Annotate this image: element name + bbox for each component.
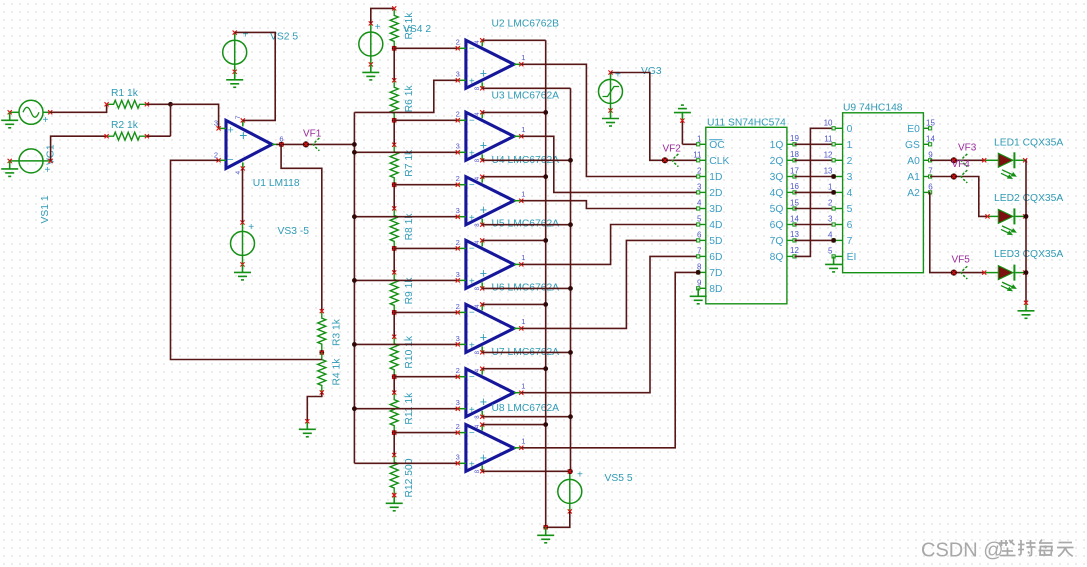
- ground: [1, 112, 18, 128]
- node junction: [319, 350, 324, 355]
- wire: [235, 32, 276, 120]
- svg-text:+: +: [480, 139, 487, 153]
- source VS5: [558, 469, 633, 514]
- svg-text:18: 18: [790, 150, 799, 159]
- svg-text:2: 2: [456, 110, 460, 119]
- node junction: [392, 430, 397, 435]
- wire: [354, 462, 457, 464]
- wire: [354, 279, 457, 281]
- svg-text:7: 7: [697, 246, 702, 255]
- svg-text:+: +: [469, 149, 475, 160]
- resistor R11: [390, 391, 415, 435]
- svg-text:−: −: [469, 372, 475, 383]
- wire: [521, 256, 698, 392]
- svg-text:7: 7: [928, 167, 933, 176]
- svg-text:2: 2: [456, 38, 460, 47]
- ground: [674, 105, 691, 144]
- svg-text:OC: OC: [709, 140, 725, 151]
- resistor R10: [390, 335, 415, 379]
- ground: [1, 161, 18, 177]
- wire: [546, 511, 570, 527]
- svg-text:4: 4: [697, 199, 702, 208]
- svg-text:EI: EI: [847, 252, 857, 263]
- svg-text:12: 12: [790, 246, 799, 255]
- source VS2: [223, 29, 299, 74]
- svg-text:3: 3: [456, 398, 460, 407]
- node junction: [392, 182, 397, 187]
- wire: [521, 272, 698, 447]
- node junction: [543, 174, 548, 179]
- svg-text:6: 6: [847, 220, 853, 231]
- node junction: [392, 310, 397, 315]
- node junction: [543, 110, 548, 115]
- svg-text:CLK: CLK: [709, 156, 729, 167]
- wire: [307, 392, 322, 421]
- probe VF5: [951, 255, 971, 279]
- svg-text:VS3 -5: VS3 -5: [278, 226, 310, 237]
- wire: [611, 73, 699, 161]
- resistor R5: [390, 6, 415, 50]
- svg-text:VF5: VF5: [952, 255, 971, 266]
- svg-text:+: +: [480, 395, 487, 409]
- svg-text:15: 15: [790, 198, 799, 207]
- svg-text:+: +: [480, 331, 487, 345]
- svg-text:3: 3: [456, 70, 460, 79]
- svg-text:+: +: [480, 267, 487, 281]
- ground: [690, 288, 707, 304]
- svg-text:GS: GS: [905, 140, 920, 151]
- svg-text:3: 3: [456, 270, 460, 279]
- wire: [795, 224, 834, 226]
- svg-text:A1: A1: [907, 172, 920, 183]
- svg-text:2: 2: [697, 167, 702, 176]
- node junction: [352, 142, 357, 147]
- svg-text:6: 6: [697, 230, 702, 239]
- svg-text:−: −: [469, 44, 475, 55]
- wire: [394, 119, 458, 121]
- svg-text:CSDN @: CSDN @: [921, 540, 1004, 562]
- wire: [1025, 272, 1026, 274]
- wire: [394, 311, 458, 313]
- wire: [281, 144, 322, 311]
- wire: [482, 470, 570, 472]
- ground: [537, 527, 554, 543]
- wire: [393, 120, 395, 144]
- wire: [482, 176, 546, 178]
- wire: [394, 184, 458, 186]
- wire: [354, 408, 457, 410]
- svg-text:5Q: 5Q: [770, 204, 784, 215]
- node junction: [392, 246, 397, 251]
- node junction: [568, 286, 573, 291]
- svg-text:2: 2: [828, 199, 833, 208]
- svg-text:1: 1: [521, 437, 525, 446]
- svg-text:4: 4: [235, 171, 242, 175]
- source VG1: [8, 100, 57, 165]
- resistor R3: [318, 309, 343, 351]
- svg-text:4Q: 4Q: [770, 188, 784, 199]
- ground: [386, 493, 403, 511]
- wire: [393, 377, 395, 393]
- svg-text:7Q: 7Q: [770, 236, 784, 247]
- svg-text:−: −: [469, 428, 475, 439]
- svg-text:1: 1: [521, 125, 525, 134]
- svg-text:1: 1: [521, 317, 525, 326]
- svg-text:VF2: VF2: [663, 144, 682, 155]
- node junction: [543, 422, 548, 427]
- probe VF4: [951, 159, 971, 183]
- svg-text:−: −: [469, 244, 475, 255]
- ground: [1018, 301, 1035, 319]
- op-amp U7: [456, 347, 560, 419]
- svg-text:6: 6: [928, 182, 933, 191]
- node junction: [392, 46, 397, 51]
- wire: [795, 143, 834, 145]
- svg-text:13: 13: [790, 230, 799, 239]
- node junction: [352, 278, 357, 283]
- svg-text:1: 1: [521, 253, 525, 262]
- svg-text:3: 3: [214, 118, 218, 127]
- svg-text:−: −: [227, 154, 233, 166]
- svg-text:15: 15: [926, 118, 935, 127]
- wire: [354, 151, 457, 153]
- svg-text:5: 5: [847, 204, 853, 215]
- IC U11 SN74HC574: [693, 118, 799, 304]
- svg-text:2: 2: [456, 238, 460, 247]
- wire: [171, 104, 219, 128]
- LED LED3: [982, 249, 1063, 291]
- svg-text:VF3: VF3: [958, 142, 977, 153]
- svg-text:1D: 1D: [709, 172, 722, 183]
- ground: [602, 111, 619, 127]
- svg-text:10: 10: [824, 118, 833, 127]
- wire: [354, 80, 457, 112]
- svg-text:+: +: [480, 451, 487, 465]
- svg-text:R3 1k: R3 1k: [331, 318, 342, 346]
- ground: [362, 64, 379, 80]
- resistor R8: [390, 206, 415, 250]
- svg-text:4: 4: [828, 230, 833, 239]
- wire: [371, 8, 394, 23]
- svg-text:+: +: [45, 165, 51, 176]
- op-amp U1: [214, 115, 300, 189]
- svg-text:3: 3: [828, 215, 833, 224]
- resistor R9: [390, 270, 415, 314]
- resistor R12: [390, 453, 415, 498]
- wire: [170, 104, 172, 136]
- node junction: [543, 525, 548, 530]
- node junction: [168, 102, 173, 107]
- svg-text:7D: 7D: [709, 268, 722, 279]
- wire: [521, 64, 698, 176]
- wire: [482, 368, 546, 370]
- wire: [795, 128, 834, 256]
- node junction: [352, 214, 357, 219]
- svg-text:6D: 6D: [709, 252, 722, 263]
- wire: [171, 160, 322, 359]
- svg-text:6Q: 6Q: [770, 220, 784, 231]
- svg-text:5D: 5D: [709, 236, 722, 247]
- ground: [226, 72, 243, 88]
- svg-text:12: 12: [824, 150, 833, 159]
- node junction: [568, 414, 573, 419]
- svg-text:U3 LMC6762A: U3 LMC6762A: [492, 91, 560, 102]
- svg-text:8Q: 8Q: [770, 252, 784, 263]
- svg-text:14: 14: [926, 134, 935, 143]
- svg-text:3: 3: [456, 206, 460, 215]
- svg-text:1: 1: [697, 134, 702, 143]
- svg-text:+: +: [248, 222, 254, 233]
- svg-text:VS1 1: VS1 1: [40, 195, 51, 223]
- wire: [393, 185, 395, 209]
- IC U9 74HC148: [824, 103, 936, 273]
- svg-text:VS5 5: VS5 5: [605, 473, 633, 484]
- svg-text:8D: 8D: [709, 284, 722, 295]
- svg-text:2: 2: [456, 422, 460, 431]
- svg-text:1: 1: [521, 190, 525, 199]
- wire: [482, 239, 546, 241]
- wire: [521, 136, 698, 192]
- source VS1: [8, 149, 53, 224]
- wire: [394, 376, 458, 378]
- svg-text:+: +: [469, 277, 475, 288]
- svg-text:3D: 3D: [709, 204, 722, 215]
- node junction: [1024, 214, 1029, 219]
- svg-text:2: 2: [214, 150, 218, 159]
- resistor R2: [105, 120, 150, 140]
- svg-text:3: 3: [847, 172, 853, 183]
- node junction: [352, 342, 357, 347]
- wire: [393, 48, 395, 80]
- svg-text:R5 1k: R5 1k: [404, 12, 415, 40]
- svg-text:9: 9: [697, 278, 702, 287]
- svg-text:0: 0: [847, 124, 853, 135]
- wire: [147, 135, 171, 137]
- svg-text:R10 1k: R10 1k: [404, 335, 415, 368]
- wire: [394, 47, 458, 49]
- svg-text:13: 13: [824, 167, 833, 176]
- wire: [930, 177, 987, 217]
- node junction: [568, 350, 573, 355]
- node junction: [392, 374, 397, 379]
- node junction: [543, 302, 548, 307]
- wire: [795, 208, 834, 210]
- wire: [570, 88, 572, 471]
- svg-text:VF1: VF1: [303, 129, 322, 140]
- wire: [1025, 160, 1026, 302]
- svg-text:U8 LMC6762A: U8 LMC6762A: [492, 403, 560, 414]
- watermark: [921, 540, 1074, 562]
- node junction: [392, 118, 397, 123]
- svg-text:R2 1k: R2 1k: [111, 120, 139, 131]
- resistor R7: [390, 143, 415, 187]
- svg-text:+: +: [227, 125, 233, 137]
- svg-text:U2 LMC6762B: U2 LMC6762B: [492, 19, 560, 30]
- svg-text:+: +: [239, 127, 247, 143]
- op-amp U8: [456, 403, 560, 474]
- wire: [482, 159, 570, 161]
- svg-text:R12 500: R12 500: [404, 458, 415, 497]
- svg-text:2: 2: [456, 302, 460, 311]
- node junction: [696, 270, 701, 275]
- svg-text:U11 SN74HC574: U11 SN74HC574: [707, 118, 786, 129]
- svg-text:9: 9: [928, 150, 933, 159]
- svg-text:+: +: [43, 115, 49, 126]
- svg-text:+: +: [615, 70, 621, 81]
- wire: [930, 192, 984, 272]
- svg-text:1Q: 1Q: [770, 140, 784, 151]
- probe VF3: [951, 142, 977, 166]
- svg-text:7: 7: [847, 236, 853, 247]
- svg-text:+: +: [469, 77, 475, 88]
- wire: [795, 176, 834, 178]
- svg-text:4: 4: [847, 188, 853, 199]
- node junction: [1024, 270, 1029, 275]
- node junction: [352, 150, 357, 155]
- wire: [682, 143, 698, 145]
- ground: [234, 264, 251, 280]
- svg-text:E0: E0: [907, 124, 920, 135]
- wire: [482, 224, 570, 226]
- wire: [482, 111, 546, 113]
- ground: [825, 256, 842, 272]
- node junction: [568, 158, 573, 163]
- LED LED2: [985, 193, 1063, 235]
- op-amp U4: [456, 155, 560, 227]
- svg-text:19: 19: [790, 134, 799, 143]
- probe VF2: [662, 144, 681, 167]
- resistor R4: [318, 353, 343, 395]
- node junction: [543, 238, 548, 243]
- wire: [353, 112, 355, 463]
- svg-text:2: 2: [847, 156, 853, 167]
- svg-text:+: +: [243, 29, 249, 40]
- svg-text:+: +: [480, 67, 487, 81]
- svg-text:VF4: VF4: [952, 159, 971, 170]
- op-amp U2: [456, 19, 560, 91]
- source VS3: [231, 220, 310, 266]
- op-amp U5: [456, 219, 560, 291]
- op-amp U3: [456, 91, 560, 163]
- svg-text:−: −: [469, 116, 475, 127]
- wire: [50, 104, 106, 112]
- node junction: [831, 238, 836, 243]
- svg-text:−: −: [469, 180, 475, 191]
- node junction: [543, 366, 548, 371]
- svg-text:17: 17: [790, 166, 799, 175]
- wire: [242, 168, 244, 222]
- resistor R1: [105, 88, 150, 108]
- wire: [51, 136, 107, 161]
- wire: [795, 191, 834, 193]
- svg-text:11: 11: [693, 150, 702, 159]
- svg-text:+: +: [469, 460, 475, 471]
- wire: [545, 40, 547, 527]
- svg-text:2Q: 2Q: [770, 156, 784, 167]
- svg-text:+: +: [469, 341, 475, 352]
- wire: [482, 287, 570, 289]
- svg-text:1: 1: [521, 382, 525, 391]
- svg-text:11: 11: [824, 134, 833, 143]
- wire: [521, 201, 698, 209]
- ground: [299, 419, 316, 437]
- node junction: [568, 222, 573, 227]
- svg-text:7: 7: [235, 115, 242, 119]
- wire: [393, 248, 395, 272]
- wire: [276, 143, 354, 145]
- svg-text:1: 1: [828, 182, 833, 191]
- wire: [482, 351, 570, 353]
- svg-text:1: 1: [521, 53, 525, 62]
- svg-text:R1 1k: R1 1k: [111, 88, 139, 99]
- wire: [795, 239, 834, 241]
- wire: [1025, 215, 1026, 217]
- svg-text:1: 1: [847, 140, 853, 151]
- svg-text:+: +: [577, 469, 583, 480]
- node junction: [279, 142, 284, 147]
- svg-text:3: 3: [456, 142, 460, 151]
- wire: [930, 159, 984, 161]
- svg-text:16: 16: [790, 182, 799, 191]
- svg-text:3: 3: [456, 453, 460, 462]
- node junction: [831, 190, 836, 195]
- svg-text:R6 1k: R6 1k: [404, 85, 415, 113]
- svg-text:5: 5: [697, 215, 702, 224]
- wire: [354, 216, 457, 218]
- node junction: [831, 174, 836, 179]
- wire: [393, 312, 395, 336]
- svg-text:5: 5: [828, 246, 833, 255]
- svg-text:VS2 5: VS2 5: [270, 32, 298, 43]
- wire: [521, 240, 698, 328]
- wire: [147, 103, 171, 105]
- svg-text:VG3: VG3: [641, 66, 662, 77]
- svg-text:3: 3: [456, 334, 460, 343]
- svg-text:14: 14: [790, 214, 799, 223]
- resistor R6: [390, 78, 415, 122]
- svg-text:2: 2: [456, 366, 460, 375]
- op-amp U6: [456, 283, 560, 355]
- wire: [521, 225, 698, 265]
- svg-text:+: +: [375, 22, 381, 33]
- wire: [795, 159, 834, 161]
- svg-text:R4 1k: R4 1k: [331, 358, 342, 386]
- wire: [482, 424, 546, 426]
- svg-text:+: +: [480, 203, 487, 217]
- wire: [354, 343, 457, 345]
- svg-text:A0: A0: [907, 156, 920, 167]
- svg-text:U9 74HC148: U9 74HC148: [843, 103, 903, 114]
- svg-text:−: −: [469, 308, 475, 319]
- svg-text:LED3 CQX35A: LED3 CQX35A: [994, 249, 1063, 260]
- wire: [482, 87, 570, 89]
- source VG3: [599, 66, 662, 113]
- wire: [482, 39, 546, 41]
- svg-text:3Q: 3Q: [770, 172, 784, 183]
- node junction: [352, 406, 357, 411]
- wire: [394, 247, 458, 249]
- svg-text:LED2 CQX35A: LED2 CQX35A: [994, 193, 1063, 204]
- source VS4: [359, 21, 432, 66]
- wire: [393, 433, 395, 455]
- svg-text:2: 2: [456, 174, 460, 183]
- svg-text:2D: 2D: [709, 188, 722, 199]
- svg-text:A2: A2: [907, 188, 920, 199]
- svg-text:3: 3: [697, 182, 702, 191]
- wire: [482, 303, 546, 305]
- svg-text:R7 1k: R7 1k: [404, 149, 415, 177]
- wire: [482, 416, 570, 418]
